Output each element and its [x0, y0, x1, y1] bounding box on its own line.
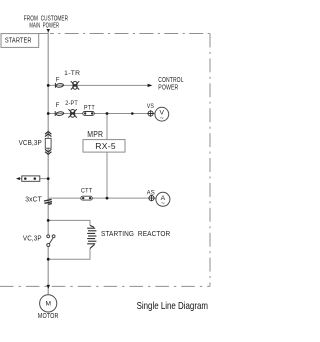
wire: 2-PT branch [48, 113, 155, 115]
voltmeter V [155, 107, 169, 122]
fuse F (2-PT branch) [55, 111, 64, 116]
junction dot reactor bottom [47, 258, 50, 261]
node: outgoing motor feed arrow [46, 285, 50, 289]
wire: main vertical bus (upper segment) [20, 31, 156, 295]
starter box [1, 34, 39, 48]
breaker VCB,3P chevrons bottom [45, 149, 51, 154]
junction dot branch 2 [47, 112, 50, 115]
svg-text:F: F [56, 76, 60, 83]
ammeter switch AS [148, 195, 154, 201]
contactor VC,3P [47, 235, 55, 247]
svg-text:3xCT: 3xCT [25, 196, 42, 204]
svg-text:2-PT: 2-PT [65, 100, 78, 107]
svg-text:VCB,3P: VCB,3P [19, 139, 42, 147]
svg-text:CONTROL: CONTROL [158, 76, 183, 84]
svg-text:MAIN POWER: MAIN POWER [29, 22, 59, 30]
transformer 2-PT [68, 109, 76, 117]
wire: MPR relay drop [106, 114, 108, 198]
svg-text:STARTING REACTOR: STARTING REACTOR [101, 230, 170, 238]
CT secondary test block [22, 176, 40, 181]
wire: reactor bypass bottom [48, 248, 90, 259]
motor M [40, 295, 57, 312]
svg-text:1-TR: 1-TR [64, 70, 80, 77]
svg-text:CTT: CTT [81, 188, 93, 195]
svg-text:VS: VS [147, 103, 155, 110]
wire: CT secondary left branch [20, 178, 49, 180]
svg-text:~: ~ [160, 115, 164, 122]
junction dot reactor top [47, 219, 50, 222]
relay box RX-5 (MPR) [83, 140, 125, 153]
wire: reactor bypass top [48, 220, 90, 225]
svg-text:MOTOR: MOTOR [38, 312, 59, 320]
ammeter A [156, 192, 170, 207]
svg-text:STARTER: STARTER [5, 36, 32, 44]
enclosure boundary chain line [0, 34, 210, 287]
junction dot MPR to CTT [106, 197, 109, 200]
wire: CTT branch [48, 197, 156, 199]
svg-text:M: M [45, 301, 51, 308]
test block PTT [83, 112, 95, 116]
CT secondary arrow [16, 177, 20, 180]
svg-text:RX-5: RX-5 [95, 141, 116, 151]
junction dot branch 1 [47, 84, 50, 87]
svg-text:AS: AS [147, 189, 155, 196]
current transformers 3xCT [44, 199, 52, 204]
junction dot VS tap [131, 112, 134, 115]
junction dot CT secondary branch [47, 177, 50, 180]
svg-text:POWER: POWER [158, 84, 178, 92]
svg-text:PTT: PTT [84, 105, 95, 112]
transformer 1-TR [71, 81, 79, 89]
svg-text:~: ~ [161, 200, 165, 207]
breaker VCB,3P chevrons top [45, 132, 51, 137]
node: incoming power arrow [47, 29, 51, 32]
fuse F (1-TR branch) [55, 83, 63, 88]
breaker VCB,3P body [45, 138, 51, 148]
svg-text:VC,3P: VC,3P [23, 234, 42, 242]
svg-text:MPR: MPR [87, 129, 103, 139]
starting reactor coil [87, 225, 96, 248]
svg-text:Single Line Diagram: Single Line Diagram [137, 300, 209, 312]
svg-text:F: F [56, 102, 60, 109]
wire: main vertical bus (lower segment below VC contact) [47, 246, 49, 294]
arrow to control power [148, 84, 153, 87]
junction dot MPR tap [106, 112, 109, 115]
wire: 1-TR branch [48, 84, 148, 86]
voltmeter switch VS [147, 110, 153, 116]
label: FROM CUSTOMER MAIN POWER [24, 14, 68, 29]
test block CTT [81, 196, 93, 200]
wire: starter box link [39, 33, 49, 35]
